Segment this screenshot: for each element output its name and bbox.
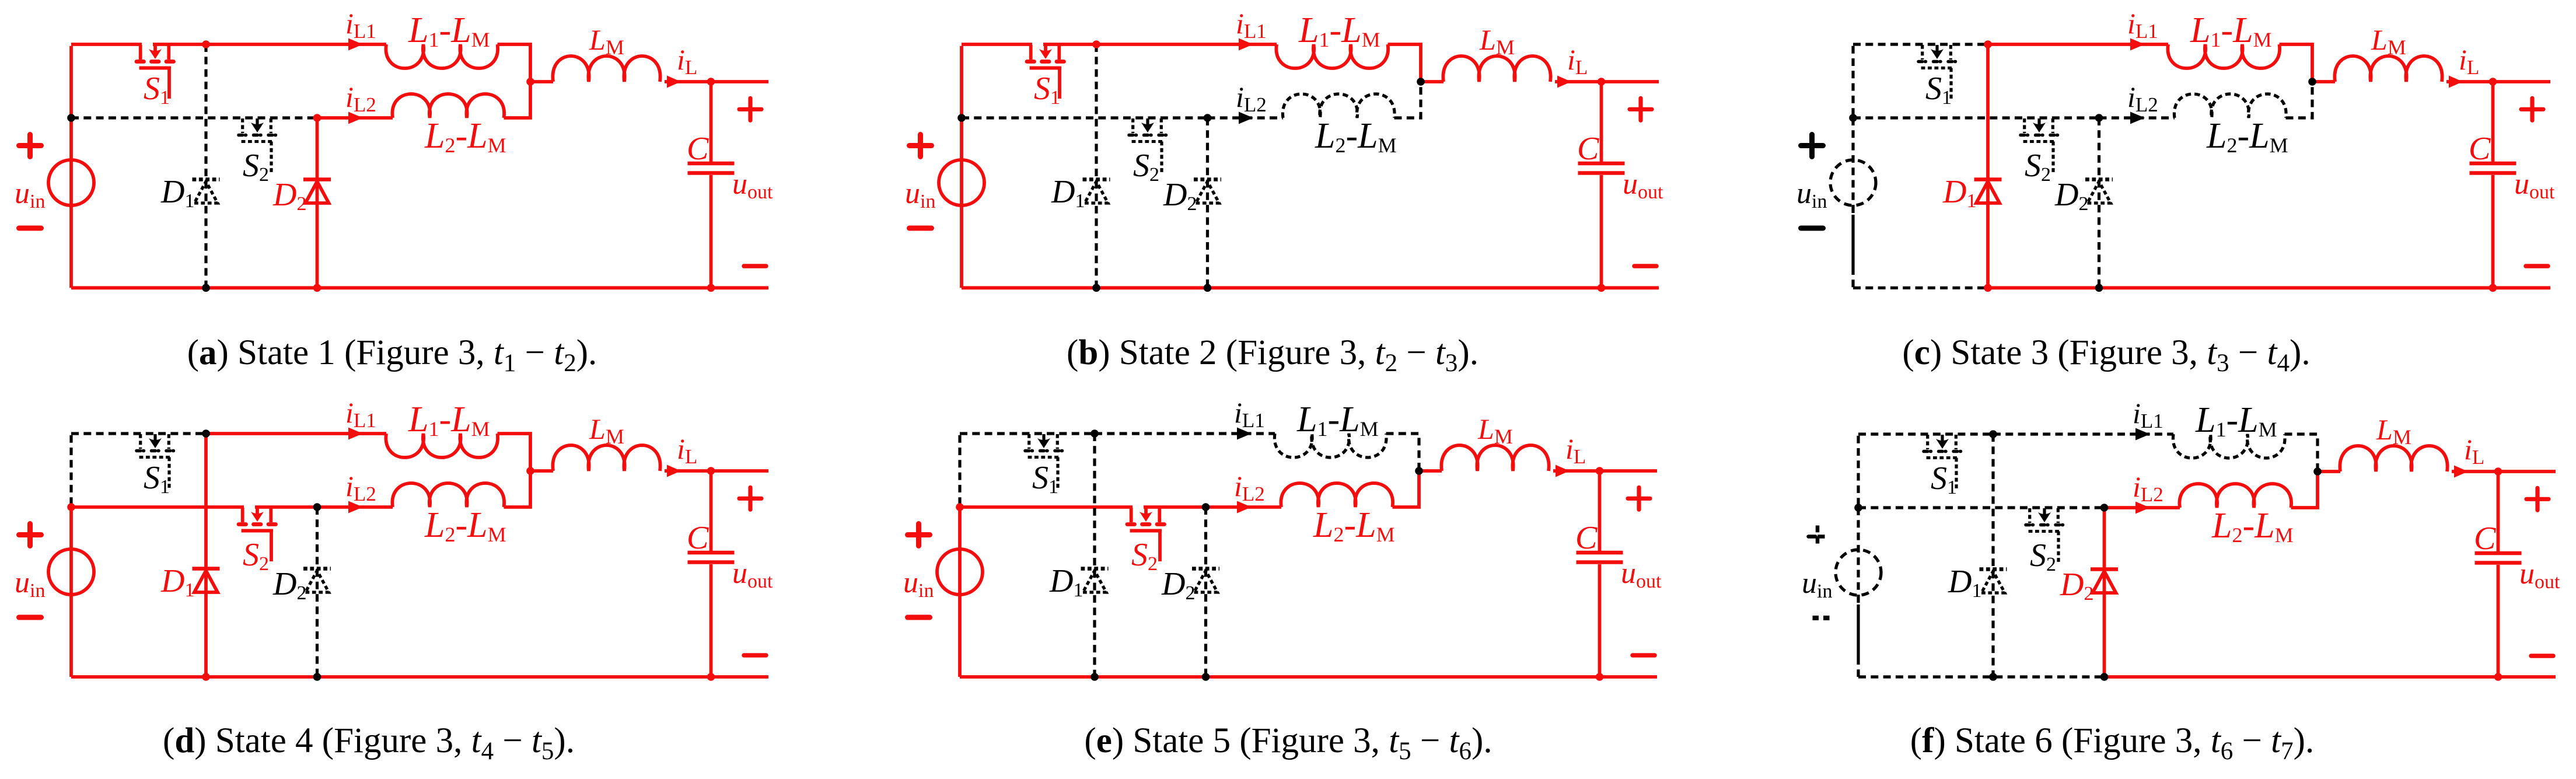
svg-text:C: C <box>687 520 709 556</box>
svg-text:C: C <box>1575 520 1598 556</box>
svg-text:(e) State 5 (Figure 3, t5 − t6: (e) State 5 (Figure 3, t5 − t6). <box>1084 721 1492 765</box>
svg-text:C: C <box>2474 521 2496 557</box>
svg-text:(b) State 2 (Figure 3, t2 − t3: (b) State 2 (Figure 3, t2 − t3). <box>1067 333 1479 377</box>
svg-text:(f) State 6 (Figure 3, t6 − t7: (f) State 6 (Figure 3, t6 − t7). <box>1910 721 2314 765</box>
svg-text:(a) State 1 (Figure 3, t1 − t2: (a) State 1 (Figure 3, t1 − t2). <box>187 333 597 377</box>
svg-text:C: C <box>687 131 709 167</box>
svg-text:(c) State 3 (Figure 3, t3 − t4: (c) State 3 (Figure 3, t3 − t4). <box>1902 333 2310 377</box>
svg-text:C: C <box>1577 131 1599 167</box>
svg-text:(d) State 4 (Figure 3, t4 − t5: (d) State 4 (Figure 3, t4 − t5). <box>163 721 575 765</box>
svg-text:C: C <box>2469 131 2491 167</box>
